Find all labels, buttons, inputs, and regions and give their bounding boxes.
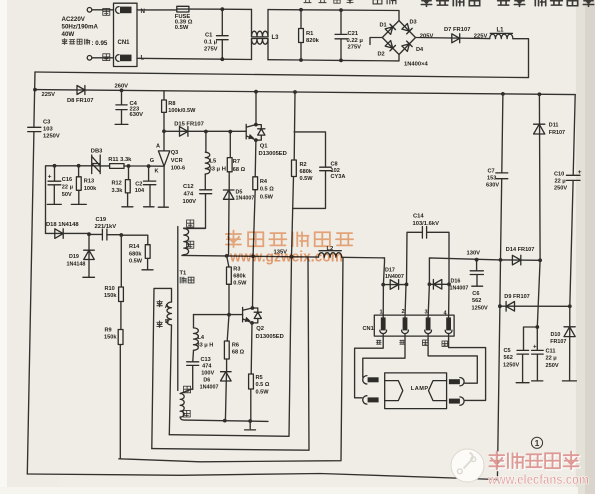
- svg-text:DB3: DB3: [91, 149, 103, 155]
- node label 225V (rail): [42, 92, 56, 98]
- svg-text:C1: C1: [205, 33, 213, 39]
- resistor R2: [292, 92, 314, 257]
- diode D5 1N4007: [223, 189, 254, 256]
- svg-text:: 0.95: : 0.95: [92, 40, 108, 47]
- svg-text:68 Ω: 68 Ω: [232, 350, 245, 356]
- label: winding terminal B: [165, 319, 169, 325]
- svg-text:22 μ: 22 μ: [62, 184, 74, 190]
- svg-text:22 μ: 22 μ: [555, 179, 567, 185]
- svg-text:1: 1: [380, 310, 383, 316]
- svg-text:CN1: CN1: [118, 40, 131, 46]
- svg-text:K: K: [155, 168, 159, 174]
- svg-text:C10: C10: [554, 171, 564, 177]
- svg-text:C11: C11: [546, 348, 556, 354]
- svg-text:D6: D6: [203, 378, 210, 384]
- diode D9 FR107: [498, 294, 572, 311]
- watermark elecfans logo: [451, 449, 484, 482]
- wire: pin2 to lamp upper-left: [363, 334, 405, 378]
- svg-text:T1: T1: [180, 271, 188, 277]
- ground: [245, 421, 256, 430]
- svg-text:0.5 Ω: 0.5 Ω: [256, 382, 270, 388]
- lamp terminal lower-right: [449, 397, 464, 405]
- svg-text:D7 FR107: D7 FR107: [444, 27, 470, 33]
- svg-text:LAMP: LAMP: [411, 386, 429, 392]
- transistor Q1 D13005ED: [246, 92, 287, 158]
- svg-text:C5: C5: [504, 348, 511, 354]
- capacitor C19: [89, 217, 121, 240]
- svg-text:33 μ H: 33 μ H: [209, 166, 226, 172]
- capacitor C13: [187, 350, 215, 389]
- label: wire colour 绿 (upper): [184, 386, 191, 393]
- svg-text:40W: 40W: [62, 31, 75, 38]
- capacitor C4: [115, 90, 143, 124]
- svg-text:R14: R14: [129, 244, 140, 250]
- svg-text:1N4007: 1N4007: [450, 285, 469, 291]
- svg-text:R8: R8: [168, 101, 175, 107]
- wire: top 225V rail: [33, 88, 575, 97]
- svg-text:D8 FR107: D8 FR107: [67, 98, 93, 104]
- svg-text:100-6: 100-6: [171, 165, 185, 171]
- resistor R8: [162, 91, 196, 132]
- svg-text:D14 FR107: D14 FR107: [506, 247, 535, 253]
- capacitor C21: [335, 10, 363, 60]
- svg-text:0.22 μ: 0.22 μ: [347, 38, 364, 44]
- svg-text:0.5W: 0.5W: [300, 176, 314, 182]
- capacitor C12: [183, 174, 212, 228]
- wire: rectified return to main box: [35, 39, 529, 78]
- svg-text:562: 562: [472, 298, 481, 304]
- svg-text:102: 102: [331, 168, 340, 174]
- wire: bridge output to D7: [416, 38, 490, 39]
- label: wire colour 灰 (pin1): [376, 340, 381, 344]
- svg-text:680k: 680k: [233, 273, 246, 279]
- transformer T1 primary winding (white): [182, 228, 205, 255]
- svg-text:50Hz/190mA: 50Hz/190mA: [62, 24, 99, 31]
- svg-text:1N4007: 1N4007: [385, 274, 404, 280]
- svg-text:221/1kV: 221/1kV: [95, 224, 117, 230]
- svg-text:275V: 275V: [204, 46, 218, 52]
- svg-text:C16: C16: [62, 177, 72, 183]
- svg-text:CY3A: CY3A: [331, 174, 346, 180]
- watermark www.elecfans.com: [487, 471, 589, 487]
- node: R8/D15/Q3 junction: [162, 129, 166, 133]
- svg-text:R1: R1: [306, 31, 314, 37]
- wire: L line from CN1 to bridge bottom: [137, 55, 399, 63]
- label: wire colour 红 (upper): [157, 300, 162, 306]
- svg-text:100V: 100V: [183, 199, 197, 205]
- watermark 电子发烧友: [489, 452, 579, 471]
- label: wire colour 白 (primary mid): [187, 241, 194, 248]
- wire: gate line (DB3 network): [46, 164, 151, 233]
- svg-text:A: A: [165, 304, 169, 310]
- wire: pin2 column up: [405, 284, 406, 317]
- node label 135V: [274, 249, 288, 255]
- resistor R5: [249, 323, 270, 421]
- svg-text:100V: 100V: [201, 370, 214, 376]
- node: C19/R10/R14 junction: [119, 233, 123, 237]
- common-mode choke L3: [252, 9, 280, 59]
- pin label L: [141, 54, 145, 61]
- svg-text:VCR: VCR: [171, 158, 183, 164]
- AC input terminal (grey lead): [87, 56, 113, 61]
- svg-text:Q3: Q3: [171, 150, 178, 156]
- diode D14 FR107: [506, 247, 542, 265]
- wire: sense loop (R9 to lamp rail): [119, 257, 343, 461]
- thyristor Q3 VCR 100-6: [149, 131, 186, 207]
- bridge rectifier D1-D4 (1N400x4): [378, 20, 429, 68]
- svg-text:+: +: [48, 173, 52, 180]
- svg-text:A: A: [156, 144, 160, 150]
- svg-text:0.5W: 0.5W: [129, 259, 143, 265]
- resistor R9: [104, 327, 123, 459]
- capacitor C14: [407, 214, 450, 285]
- svg-text:C13: C13: [201, 357, 211, 363]
- connector CN1 (output) housing: [363, 315, 455, 336]
- connector CN1 pin 4: [444, 311, 453, 334]
- svg-text:100k/0.5W: 100k/0.5W: [168, 108, 196, 114]
- resistor R3: [227, 256, 248, 315]
- svg-text:205V: 205V: [420, 33, 434, 39]
- lamp terminal upper-left: [363, 376, 379, 384]
- svg-text:D1: D1: [380, 23, 387, 29]
- svg-text:820k: 820k: [306, 38, 320, 44]
- svg-text:1N4007: 1N4007: [236, 195, 255, 201]
- svg-text:150k: 150k: [104, 335, 117, 341]
- svg-text:www.gzweix.com: www.gzweix.com: [229, 249, 343, 266]
- svg-text:130V: 130V: [467, 251, 481, 257]
- svg-text:D2: D2: [378, 52, 385, 58]
- transformer T1 winding (green): [180, 389, 268, 423]
- node label 260V: [115, 83, 129, 89]
- capacitor C2: [135, 166, 156, 207]
- svg-text:103: 103: [43, 126, 53, 132]
- svg-text:C6: C6: [472, 291, 479, 297]
- watermark 精通维修下载: [226, 231, 353, 248]
- connector CN1 (input): [114, 3, 138, 66]
- svg-text:C12: C12: [183, 184, 194, 190]
- label: wire colour 白 (pin3): [423, 340, 429, 345]
- svg-text:153: 153: [487, 175, 496, 181]
- svg-text:C19: C19: [96, 217, 107, 223]
- svg-text:0.5W: 0.5W: [256, 390, 270, 396]
- svg-text:C7: C7: [488, 168, 495, 174]
- AC input spec text: [62, 16, 108, 47]
- diode D8 FR107: [67, 86, 93, 104]
- svg-text:L5: L5: [210, 159, 218, 165]
- inductor L1: [490, 28, 513, 39]
- wire: pin3 to lamp upper-right: [428, 334, 477, 384]
- capacitor C16: [47, 166, 73, 205]
- transformer T1 core: [177, 227, 179, 391]
- svg-text:R3: R3: [233, 266, 240, 272]
- capacitor C8: [293, 132, 346, 209]
- diode D16 1N4007: [428, 279, 469, 292]
- svg-text:150k: 150k: [104, 293, 117, 299]
- diac DB3: [91, 149, 103, 174]
- svg-text:1: 1: [535, 438, 540, 448]
- svg-text:FR107: FR107: [549, 130, 565, 136]
- svg-text:2: 2: [402, 309, 405, 315]
- diode D10 FR107: [550, 306, 576, 381]
- node label 205V: [420, 33, 434, 39]
- connector CN1 pin 2: [402, 309, 409, 333]
- wire: pin3 column up: [428, 284, 429, 317]
- pin label N: [141, 8, 146, 15]
- svg-text:103/1.6kV: 103/1.6kV: [413, 221, 440, 227]
- svg-text:R5: R5: [256, 375, 263, 381]
- diode D6 1N4007: [200, 371, 232, 420]
- wire: left edge of main loop: [27, 72, 35, 474]
- svg-text:0.5W: 0.5W: [175, 25, 189, 31]
- svg-text:+: +: [533, 344, 537, 350]
- svg-text:B: B: [165, 319, 169, 325]
- svg-text:D9 FR107: D9 FR107: [504, 294, 530, 300]
- wire: D15 to Q1 base: [164, 130, 246, 134]
- svg-text:Q2: Q2: [256, 326, 264, 332]
- transistor Q2 D13005ED: [194, 256, 284, 340]
- diode D19 1N4148: [67, 234, 95, 277]
- fuse FUSE 0.39Ω 0.5W: [175, 6, 193, 31]
- svg-text:D17: D17: [385, 268, 395, 274]
- svg-text:D11: D11: [549, 123, 559, 129]
- node label 130V: [467, 251, 481, 257]
- svg-text:R7: R7: [233, 159, 240, 165]
- svg-text:1N400×4: 1N400×4: [404, 61, 428, 67]
- wire: right edge: [570, 95, 575, 307]
- resistor R11: [108, 157, 132, 168]
- svg-text:0.5W: 0.5W: [260, 194, 274, 200]
- wire: feedback loop (red A to lamp rail): [152, 257, 309, 450]
- label: wire colour 红 (lower): [157, 321, 162, 327]
- resistor R14: [121, 235, 153, 270]
- svg-text:0.1 μ: 0.1 μ: [204, 40, 218, 46]
- svg-text:R10: R10: [105, 286, 115, 292]
- svg-text:+: +: [578, 169, 582, 176]
- svg-text:1250V: 1250V: [43, 133, 60, 139]
- svg-text:G: G: [150, 158, 154, 164]
- resistor R1: [299, 10, 320, 60]
- resistor R6: [224, 315, 244, 372]
- svg-text:R11 3.3k: R11 3.3k: [108, 157, 132, 163]
- svg-text:630V: 630V: [486, 182, 499, 188]
- svg-text:50V: 50V: [62, 192, 72, 198]
- capacitor C11: [532, 344, 559, 381]
- transformer T1 feedback winding (red A/B): [152, 288, 172, 448]
- svg-text:D19: D19: [69, 254, 79, 260]
- label: wire colour 白 (input N): [103, 9, 110, 16]
- svg-text:D18 1N4148: D18 1N4148: [46, 222, 79, 228]
- svg-text:C14: C14: [413, 214, 424, 220]
- svg-text:D4: D4: [416, 47, 424, 53]
- capacitor C5: [503, 348, 529, 383]
- svg-text:104: 104: [135, 188, 145, 194]
- label: wire colour 灰 (input L): [103, 54, 110, 61]
- svg-text:R12: R12: [112, 180, 122, 186]
- connector CN1 pin 1: [380, 310, 387, 334]
- svg-text:0.5 Ω: 0.5 Ω: [260, 187, 274, 193]
- resistor R13: [71, 166, 97, 205]
- diode D17 1N4007: [381, 268, 408, 290]
- connector CN1 pin 3: [425, 310, 432, 334]
- svg-text:225V: 225V: [474, 34, 488, 40]
- svg-text:68 Ω: 68 Ω: [233, 167, 246, 173]
- svg-text:1250V: 1250V: [472, 305, 488, 311]
- svg-text:R13: R13: [84, 179, 94, 185]
- wire: pin4 to lamp lower-right: [449, 334, 486, 401]
- lamp terminal lower-left: [363, 396, 379, 404]
- resistor R4: [253, 140, 274, 256]
- svg-text:FR107: FR107: [550, 339, 566, 345]
- svg-text:L4: L4: [198, 335, 205, 341]
- svg-text:L3: L3: [272, 35, 280, 41]
- diode D15 FR107: [174, 121, 204, 136]
- svg-text:L1: L1: [497, 28, 505, 34]
- inductor L2: [319, 246, 342, 257]
- svg-text:250V: 250V: [546, 363, 559, 369]
- wire: 130V line: [429, 258, 540, 284]
- svg-text:3: 3: [425, 310, 428, 316]
- svg-text:0.5W: 0.5W: [233, 280, 247, 286]
- svg-text:C21: C21: [348, 31, 359, 37]
- svg-text:C8: C8: [331, 162, 338, 168]
- svg-text:1N4148: 1N4148: [67, 261, 86, 267]
- svg-text:D13005ED: D13005ED: [256, 334, 284, 340]
- capacitor C1: [204, 9, 228, 59]
- lamp LAMP: [385, 373, 447, 409]
- svg-text:D16: D16: [451, 279, 461, 285]
- diode D7 FR107: [444, 27, 470, 43]
- inductor L5: [205, 132, 226, 174]
- wire: pin4 column up: [448, 284, 450, 317]
- svg-text:D13005ED: D13005ED: [259, 151, 287, 157]
- svg-text:3.3k: 3.3k: [112, 188, 124, 194]
- wire: N line from CN1 to fuse: [137, 9, 177, 11]
- svg-text:C3: C3: [43, 119, 51, 125]
- svg-text:474: 474: [202, 364, 212, 370]
- svg-text:260V: 260V: [115, 83, 129, 89]
- label: wire colour 绿 (lower): [183, 410, 190, 417]
- capacitor C10: [554, 169, 582, 192]
- svg-text:Q1: Q1: [260, 144, 269, 150]
- diode D11 FR107: [534, 94, 565, 327]
- svg-text:100k: 100k: [84, 186, 97, 192]
- page number 1 (circled): [531, 437, 542, 448]
- wire: pin1 to lamp lower-left: [355, 334, 384, 398]
- label: winding terminal A: [165, 304, 169, 310]
- label: wire colour 白 (pin4): [442, 341, 448, 346]
- node: D18/D19/C19 junction: [87, 232, 91, 236]
- node label 225V (after D7): [474, 34, 488, 40]
- label: wire colour 白 (primary top): [187, 220, 194, 227]
- svg-text:C2: C2: [135, 181, 142, 187]
- resistor R12: [112, 166, 133, 207]
- wire: feedback loop (red B to 135V): [169, 257, 291, 437]
- wire: bridge left stub: [370, 38, 382, 45]
- svg-text:680k: 680k: [300, 169, 313, 175]
- label: wire colour 灰 (pin2): [400, 340, 405, 344]
- svg-text:D10: D10: [551, 332, 561, 338]
- svg-text:474: 474: [184, 192, 194, 198]
- svg-text:250V: 250V: [554, 186, 567, 192]
- svg-text:225V: 225V: [42, 92, 56, 98]
- svg-text:22 μ: 22 μ: [546, 356, 558, 362]
- resistor R10: [104, 235, 123, 330]
- wire: bottom rail of main loop: [27, 474, 497, 480]
- wire: C5/C11 link: [524, 325, 540, 350]
- svg-text:R9: R9: [105, 327, 112, 333]
- svg-text:D15 FR107: D15 FR107: [174, 121, 204, 127]
- AC input terminal (white lead): [87, 8, 113, 13]
- svg-text:R6: R6: [232, 342, 239, 348]
- wire: 135V rail (primary bottom): [182, 254, 385, 259]
- svg-text:D3: D3: [410, 20, 417, 26]
- transformer T1 label: [180, 271, 194, 283]
- svg-text:275V: 275V: [348, 45, 362, 51]
- svg-text:562: 562: [504, 355, 513, 361]
- svg-text:630V: 630V: [130, 112, 144, 118]
- capacitor C3: [28, 119, 60, 139]
- svg-text:R4: R4: [260, 179, 268, 185]
- inductor L4: [194, 315, 214, 351]
- svg-text:AC220V: AC220V: [62, 16, 86, 23]
- cropped caption text along top edge: [303, 0, 593, 6]
- watermark www.gzweix.com: [229, 249, 343, 266]
- svg-text:680k: 680k: [129, 251, 142, 257]
- diode D18 1N4148: [46, 222, 90, 239]
- svg-text:1250V: 1250V: [503, 362, 519, 368]
- lamp terminal upper-right: [449, 378, 464, 386]
- svg-text:R2: R2: [300, 162, 307, 168]
- svg-text:1N4007: 1N4007: [200, 385, 219, 391]
- wire: N line fuse to bridge top: [189, 7, 399, 20]
- svg-text:33 μ H: 33 μ H: [197, 342, 214, 348]
- capacitor C7: [486, 94, 508, 480]
- capacitor C6: [470, 260, 488, 312]
- svg-text:CN1: CN1: [363, 326, 374, 332]
- wire: 135V feed to pin1: [383, 258, 384, 318]
- resistor R7: [227, 132, 245, 190]
- svg-text:www.elecfans.com: www.elecfans.com: [487, 471, 589, 487]
